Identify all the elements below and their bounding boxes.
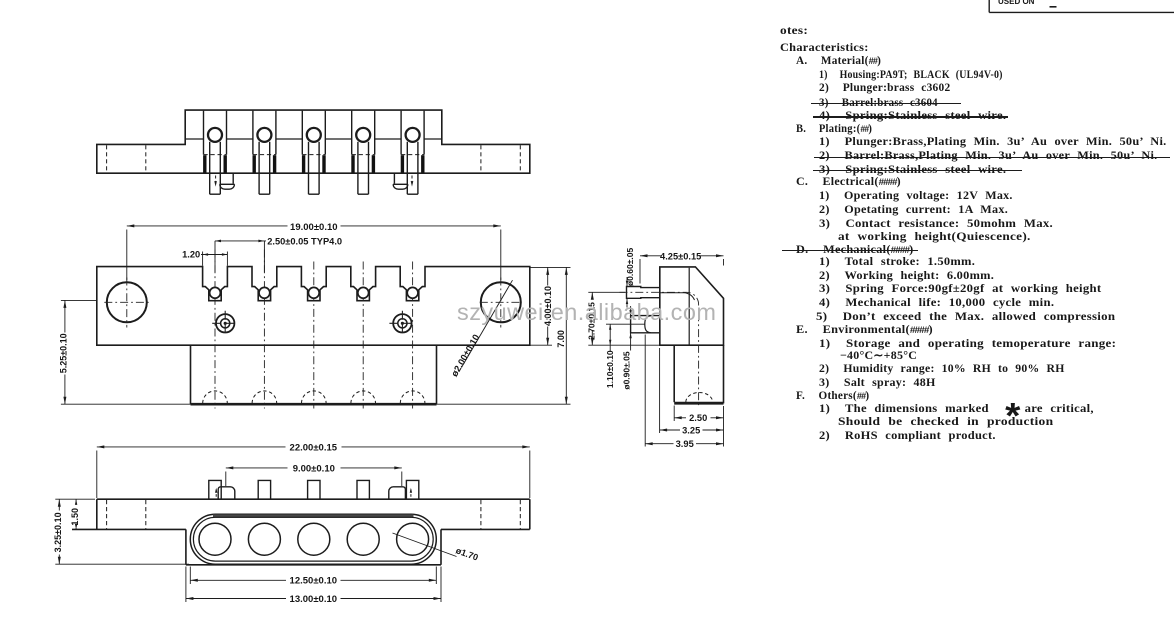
dim phi2.00 leader bbox=[461, 280, 512, 367]
bottom view: solder legs bbox=[209, 480, 221, 499]
svg-text:12.50±0.10: 12.50±0.10 bbox=[290, 576, 337, 587]
side view: solder pin (lower) bbox=[631, 316, 660, 333]
title block fragment bbox=[988, 0, 990, 12]
svg-text:7.00: 7.00 bbox=[556, 330, 566, 348]
svg-text:3.25: 3.25 bbox=[682, 425, 700, 435]
dim 4.00 right bbox=[530, 266, 571, 268]
bottom view: slot top thick band bbox=[213, 514, 414, 517]
bottom view: right foot tab bbox=[389, 487, 406, 499]
side view: bore outline arc bbox=[660, 293, 695, 300]
side view: lower block bbox=[673, 345, 675, 402]
front view: step line between towers bbox=[185, 138, 203, 140]
side view: body outline bbox=[660, 267, 724, 345]
dim 19.00 middle bbox=[127, 225, 288, 227]
middle view: right mounting hole bbox=[481, 282, 521, 322]
front view: flange hidden lines bbox=[106, 145, 108, 172]
svg-text:2.50: 2.50 bbox=[689, 413, 707, 423]
svg-text:ø2.00±0.10: ø2.00±0.10 bbox=[449, 333, 481, 379]
svg-text:ø0.60±.05: ø0.60±.05 bbox=[625, 248, 635, 286]
middle view: left mounting hole bbox=[107, 282, 147, 322]
dim 2.50 TYP pitch bbox=[215, 240, 266, 242]
dim 1.50 bottom bbox=[72, 498, 95, 500]
svg-text:ø0.90±.05: ø0.90±.05 bbox=[622, 351, 632, 389]
middle view: bottom dashed semicircles bbox=[203, 391, 228, 403]
side view: dashed solder cup arc bbox=[686, 393, 713, 403]
dim 13.00 bottom bbox=[185, 567, 187, 603]
svg-text:1.50: 1.50 bbox=[70, 508, 80, 526]
bottom view: flange hidden lines bbox=[106, 500, 108, 529]
dim 9.00 bottom bbox=[226, 467, 288, 469]
bottom view: slot inner stadium bbox=[193, 517, 433, 561]
bottom view: left foot tab bbox=[218, 487, 235, 499]
middle view: body outline with pin slots bbox=[97, 267, 530, 346]
dim 12.50 bottom bbox=[189, 567, 191, 585]
svg-text:4.25±0.15: 4.25±0.15 bbox=[660, 251, 701, 261]
svg-text:19.00±0.10: 19.00±0.10 bbox=[290, 222, 337, 233]
dim 1.10 side bbox=[606, 323, 645, 325]
svg-text:2.50±0.05 TYP4.0: 2.50±0.05 TYP4.0 bbox=[267, 236, 342, 246]
dim 7.00 right bbox=[437, 403, 571, 405]
dim 22.00 bottom bbox=[97, 446, 286, 448]
svg-text:1.10±0.10: 1.10±0.10 bbox=[605, 350, 615, 388]
side view: bent pin centerline bbox=[620, 292, 699, 407]
dim 2.50 side bbox=[673, 406, 675, 422]
bottom view: center boss outline bbox=[185, 529, 187, 564]
side view: internal bore edge bbox=[688, 268, 690, 345]
bottom view: flange bar bbox=[97, 498, 530, 500]
front view: pin towers and legs bbox=[203, 111, 205, 155]
notes text block bbox=[780, 0, 1174, 625]
dim 2.70 side bbox=[588, 291, 625, 293]
svg-text:3.25±0.10: 3.25±0.10 bbox=[53, 512, 63, 552]
svg-text:22.00±0.15: 22.00±0.15 bbox=[290, 443, 338, 454]
dim 3.95 side bbox=[644, 335, 646, 447]
svg-text:1.20: 1.20 bbox=[182, 250, 200, 260]
dim 4.25 side bbox=[640, 255, 662, 257]
front view: pin 1 bent foot bbox=[232, 174, 234, 184]
svg-text:13.00±0.10: 13.00±0.10 bbox=[290, 594, 337, 605]
middle view: pin centerlines bbox=[214, 250, 216, 409]
front view: pin head circles bbox=[208, 128, 222, 142]
svg-text:3.95: 3.95 bbox=[676, 439, 694, 449]
dim 3.25 bottom bbox=[55, 498, 72, 500]
dim phi0.90 lower pin bbox=[630, 306, 632, 316]
watermark bbox=[457, 299, 716, 326]
middle view: pin tip circles bbox=[210, 287, 221, 298]
bottom view: slot outer stadium bbox=[190, 514, 436, 564]
side view: plunger pin (upper) bbox=[627, 287, 660, 299]
svg-text:5.25±0.10: 5.25±0.10 bbox=[58, 333, 68, 373]
front view: connector body outline bbox=[97, 110, 530, 173]
dim 3.25 side bbox=[659, 348, 661, 433]
front view: pin 5 bent foot bbox=[393, 174, 395, 184]
svg-text:9.00±0.10: 9.00±0.10 bbox=[293, 464, 335, 475]
svg-text:ø1.70: ø1.70 bbox=[455, 545, 480, 562]
middle view: bottom block bbox=[190, 345, 192, 404]
bottom view: pin holes bbox=[199, 523, 231, 555]
dim 5.25 left bbox=[61, 299, 97, 301]
dim phi1.70 leader bbox=[393, 533, 457, 557]
middle view: screw bosses bbox=[216, 314, 234, 332]
